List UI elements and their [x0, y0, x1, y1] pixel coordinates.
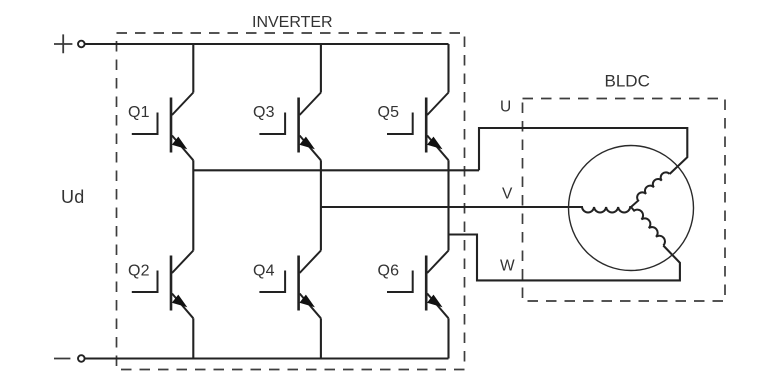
svg-text:Q4: Q4 [253, 263, 275, 280]
wire: phase U rail [193, 169, 479, 171]
wire: bottom DC bus [85, 357, 449, 359]
winding U (upper-right coil) [631, 172, 670, 207]
wire: leg1 midpoint vertical [192, 160, 194, 250]
wire: leg1 collector drop [192, 44, 194, 93]
transistor Q3 [259, 93, 321, 161]
wire: leg2 midpoint vertical [320, 160, 322, 250]
wire: leg1 emitter to bottom bus [192, 318, 194, 358]
terminal node (bottom circle) [78, 355, 85, 362]
svg-text:Q1: Q1 [128, 104, 150, 121]
transistor Q6 [387, 251, 449, 319]
wire: phase U link to motor [479, 128, 687, 174]
svg-text:BLDC: BLDC [605, 72, 650, 91]
minus terminal [54, 358, 70, 360]
svg-text:W: W [500, 258, 515, 275]
transistor Q2 [132, 251, 194, 319]
svg-text:Ud: Ud [61, 187, 85, 207]
BLDC dashed box [523, 99, 726, 302]
plus terminal [54, 34, 72, 53]
inverter dashed box [117, 33, 465, 370]
transistor Q5 [387, 93, 449, 161]
winding V (left coil) [582, 207, 631, 213]
wire: phase V rail [321, 206, 582, 208]
winding W (lower-right coil) [631, 207, 665, 245]
wire: leg3 collector drop [447, 44, 449, 93]
wire: top DC bus [85, 43, 449, 45]
wire: leg2 collector drop [320, 44, 322, 93]
terminal node (top circle) [78, 41, 85, 48]
wire: phase W tap [449, 235, 680, 281]
svg-text:Q6: Q6 [378, 263, 400, 280]
svg-text:V: V [502, 186, 513, 203]
svg-text:Q5: Q5 [378, 104, 400, 121]
svg-text:Q2: Q2 [128, 263, 150, 280]
svg-text:U: U [500, 99, 511, 116]
wire: leg3 emitter to bottom bus [447, 318, 449, 358]
svg-text:Q3: Q3 [253, 104, 275, 121]
wire: leg2 emitter to bottom bus [320, 318, 322, 358]
transistor Q4 [259, 251, 321, 319]
wire: leg3 midpoint vertical [447, 160, 449, 250]
svg-text:INVERTER: INVERTER [252, 14, 333, 31]
transistor Q1 [132, 93, 194, 161]
motor stator circle [569, 146, 694, 271]
